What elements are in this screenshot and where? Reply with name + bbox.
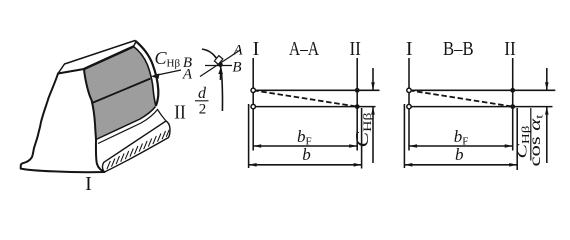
top land lower edge (bold) bbox=[84, 47, 134, 70]
b ext left bbox=[248, 104, 250, 168]
node dots B-B bbox=[407, 88, 411, 92]
b dim line bbox=[404, 164, 517, 166]
b ext left bbox=[403, 104, 405, 168]
section line II bbox=[512, 58, 514, 151]
svg-text:I: I bbox=[85, 173, 92, 195]
gray face bottom edge bbox=[96, 107, 156, 140]
C_Hb arrow bbox=[151, 70, 181, 79]
bF dim line bbox=[253, 145, 357, 147]
section line I bbox=[408, 58, 410, 151]
svg-text:CHβ: CHβ bbox=[155, 48, 181, 70]
bF dim line bbox=[409, 145, 513, 147]
b ext right bbox=[516, 108, 518, 170]
contact line on flank bbox=[92, 79, 151, 104]
svg-text:A: A bbox=[182, 67, 193, 83]
svg-text:II: II bbox=[504, 38, 516, 60]
front face outline bbox=[21, 69, 105, 172]
gear tooth flank face (gray) bbox=[84, 47, 156, 140]
dashed contact line bbox=[253, 90, 357, 106]
svg-text:B–B: B–B bbox=[443, 38, 474, 60]
section line II bbox=[356, 58, 358, 151]
svg-text:d: d bbox=[198, 85, 207, 102]
arrows B-B bbox=[404, 82, 548, 166]
svg-text:CHβ: CHβ bbox=[352, 113, 374, 148]
bottom line bbox=[252, 106, 375, 108]
tooth end inner arc bbox=[134, 47, 156, 107]
svg-text:II: II bbox=[349, 38, 361, 60]
dashed contact line bbox=[409, 90, 513, 106]
svg-text:I: I bbox=[406, 38, 413, 60]
section line I bbox=[252, 58, 254, 151]
detail sketch: tooth profile curve bbox=[202, 49, 223, 111]
svg-text:2: 2 bbox=[199, 102, 207, 118]
svg-text:B: B bbox=[232, 60, 241, 76]
hatching bbox=[107, 130, 169, 169]
svg-text:II: II bbox=[174, 102, 186, 124]
dim line C bbox=[372, 68, 374, 163]
svg-text:I: I bbox=[253, 38, 260, 60]
top line bbox=[408, 89, 555, 91]
top land strip bbox=[58, 41, 136, 74]
hatch band outline bbox=[102, 121, 170, 172]
node dots A-A bbox=[251, 88, 255, 92]
b ext right bbox=[361, 108, 363, 169]
tooth end outer arc bbox=[136, 41, 159, 106]
bottom line bbox=[408, 106, 553, 108]
B-B trace line (horizontal) bbox=[205, 65, 232, 67]
dim line C/cos bbox=[546, 68, 548, 163]
top line bbox=[252, 89, 379, 91]
svg-text:b: b bbox=[455, 145, 464, 164]
svg-text:cos αt: cos αt bbox=[527, 115, 546, 167]
b dim line bbox=[249, 164, 362, 166]
up arrow to contact point bbox=[219, 69, 221, 80]
C_Hb / cos a fraction rotated, B-B bbox=[515, 108, 546, 167]
fillet line under gray face bbox=[98, 110, 166, 144]
A-A trace line (diagonal) bbox=[200, 50, 241, 77]
svg-text:A–A: A–A bbox=[289, 38, 319, 60]
arrows A-A bbox=[249, 82, 375, 166]
svg-text:A: A bbox=[232, 43, 243, 59]
contact patch marker bbox=[214, 56, 222, 65]
contact point dot bbox=[218, 63, 223, 68]
svg-text:b: b bbox=[302, 145, 311, 164]
